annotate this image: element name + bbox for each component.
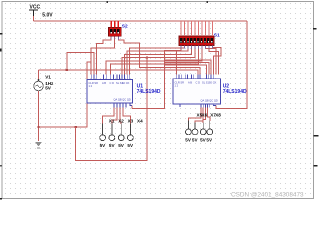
- probe X3: [118, 124, 124, 141]
- wire feed y62.5 to U2: [164, 63, 208, 75]
- wire V1 bottom to ground: [38, 91, 40, 141]
- probe X1: [100, 124, 106, 141]
- border zone tick top x207: [207, 1, 208, 3]
- wire S1 p9 wrap right to U2: [209, 46, 218, 75]
- wire U1 QD to probe X4: [123, 108, 130, 125]
- svg-text:5V: 5V: [185, 137, 192, 142]
- svg-text:X1: X1: [109, 119, 115, 124]
- wire S2 pin1 stair to U1: [96, 36, 111, 74]
- svg-text:5V: 5V: [45, 86, 52, 91]
- U1 bottom pin stubs: [114, 103, 132, 108]
- probe X5: [186, 121, 192, 135]
- wire U2 QD to probe X8: [208, 108, 210, 122]
- svg-text:CSDN @2401_84308473: CSDN @2401_84308473: [231, 192, 304, 199]
- wire S1 p8 wrap right to U2: [205, 46, 215, 75]
- IC U2 74LS194D: [173, 75, 221, 108]
- border zone tick top x107: [107, 1, 108, 3]
- wire U2 pin a from bundle: [176, 50, 178, 74]
- wire bundle y54.5 S1p4 to U1: [125, 46, 192, 75]
- border zone tick left y166: [0, 165, 2, 167]
- wire bottom bus from V1 net y127: [39, 62, 92, 127]
- svg-text:A B: A B: [102, 81, 106, 85]
- svg-text:74LS194D: 74LS194D: [223, 89, 247, 95]
- svg-text:X6: X6: [202, 113, 208, 118]
- junction bottom bus x75.7: [75, 126, 77, 128]
- wire U2 QC to probe X7: [203, 108, 205, 124]
- svg-text:74LS194D: 74LS194D: [137, 89, 161, 95]
- junction clock branch: [66, 69, 68, 71]
- svg-text:5.0V: 5.0V: [42, 13, 53, 19]
- S2 bottom pins: [111, 36, 118, 39]
- border zone tick left bottom corner: [0, 198, 2, 199]
- wire S2 pin2 stair to U1: [91, 36, 115, 74]
- svg-text:S2: S2: [122, 24, 128, 30]
- svg-text:X3: X3: [128, 119, 134, 124]
- DIP switch S2: [109, 21, 122, 40]
- probe X4: [127, 124, 133, 141]
- probe X7: [200, 123, 206, 135]
- S1 top pins to rail: [181, 21, 212, 36]
- wire U1 QC to probe X3: [120, 108, 121, 125]
- probe X8: [207, 121, 213, 135]
- wire S1 p1 down to x164.4 long vertical: [132, 46, 181, 109]
- wire VCC right drop x246.8 to U2 Vcc pin: [216, 21, 247, 109]
- S2 switch squares: [110, 29, 113, 34]
- DIP switch S1: [179, 21, 214, 49]
- wire VCC rail y21: [34, 20, 247, 22]
- wire clock branch up to U1 CLK: [67, 52, 94, 74]
- svg-text:5V: 5V: [206, 137, 213, 142]
- svg-text:X2: X2: [118, 119, 124, 124]
- wire V1 top stem: [38, 70, 40, 81]
- U2 top pin stubs: [177, 75, 214, 79]
- svg-text:QA QB QC QD: QA QB QC QD: [114, 98, 131, 102]
- ground arrow symbol: [35, 142, 42, 148]
- U1 inner pin-name text: [89, 81, 131, 102]
- wire bundle y61 S1p7 to U1: [106, 46, 202, 75]
- svg-text:VCC: VCC: [30, 5, 41, 11]
- svg-text:5V: 5V: [192, 137, 199, 142]
- svg-text:QA QB QC QD: QA QB QC QD: [201, 99, 218, 103]
- IC U1 74LS194D: [87, 75, 133, 108]
- svg-text:S1: S1: [214, 32, 220, 38]
- border zone tick right y28: [313, 28, 317, 30]
- probe X2: [109, 124, 115, 141]
- border zone mark left y49-51: [0, 49, 2, 52]
- svg-text:1 2: 1 2: [175, 83, 179, 87]
- wire S2 pin3 right to U2: [118, 36, 200, 74]
- border zone tick right y135: [314, 135, 319, 137]
- wire feed y65 to U2: [164, 65, 206, 75]
- svg-text:S0 CK: S0 CK: [122, 81, 130, 85]
- wire U1 QD elbow to right: [131, 106, 133, 109]
- border zone tick left y34: [0, 33, 3, 35]
- svg-text:X8: X8: [215, 113, 221, 118]
- svg-text:5V: 5V: [100, 143, 107, 148]
- wire bottom bus down and right to x147: [76, 58, 147, 161]
- svg-text:5V: 5V: [118, 143, 125, 148]
- wire feed y60 to U2: [164, 60, 211, 75]
- svg-text:5V: 5V: [109, 143, 116, 148]
- wire bundle y51 S1p3 to U1: [127, 46, 188, 75]
- wire S1 p10 wrap right to U2: [212, 46, 220, 75]
- S2 top pins to rail: [111, 21, 118, 27]
- U1 top pin stubs: [91, 75, 130, 80]
- svg-text:5V: 5V: [127, 143, 134, 148]
- svg-text:X4: X4: [137, 119, 143, 124]
- svg-text:C D: C D: [196, 80, 201, 84]
- probe X6: [192, 123, 198, 135]
- VCC power symbol: [29, 10, 38, 16]
- wire bundle y64 S1p6 to U1: [111, 46, 199, 75]
- junction x147 into bundle: [146, 56, 148, 58]
- svg-text:C D: C D: [110, 81, 115, 85]
- svg-text:1 2: 1 2: [89, 84, 93, 88]
- wire U1 QA to probe X1: [103, 108, 114, 125]
- wire V1 clock horizontal y70 to U2 CLK: [39, 70, 198, 75]
- wire U1 QB to probe X2: [112, 108, 117, 125]
- wire bundle y58 S1p5 to U1: [122, 46, 195, 75]
- U2 inner pin-name text: [175, 80, 218, 102]
- svg-text:S0 CK: S0 CK: [209, 80, 217, 84]
- svg-text:A B: A B: [188, 80, 192, 84]
- S1 switch squares: [180, 38, 213, 43]
- wire bundle y48 S1p2 to U1: [130, 46, 185, 75]
- S1 bottom pins: [181, 46, 212, 49]
- border zone tick right y166: [314, 165, 318, 167]
- svg-text:V1: V1: [45, 75, 51, 80]
- wire U2 QA to probe X5: [188, 108, 201, 122]
- source V1: [34, 79, 44, 91]
- wire VCC drop from symbol: [33, 16, 35, 22]
- wire U2 QB to probe X6: [195, 108, 203, 124]
- U2 bottom pin stubs: [180, 104, 216, 108]
